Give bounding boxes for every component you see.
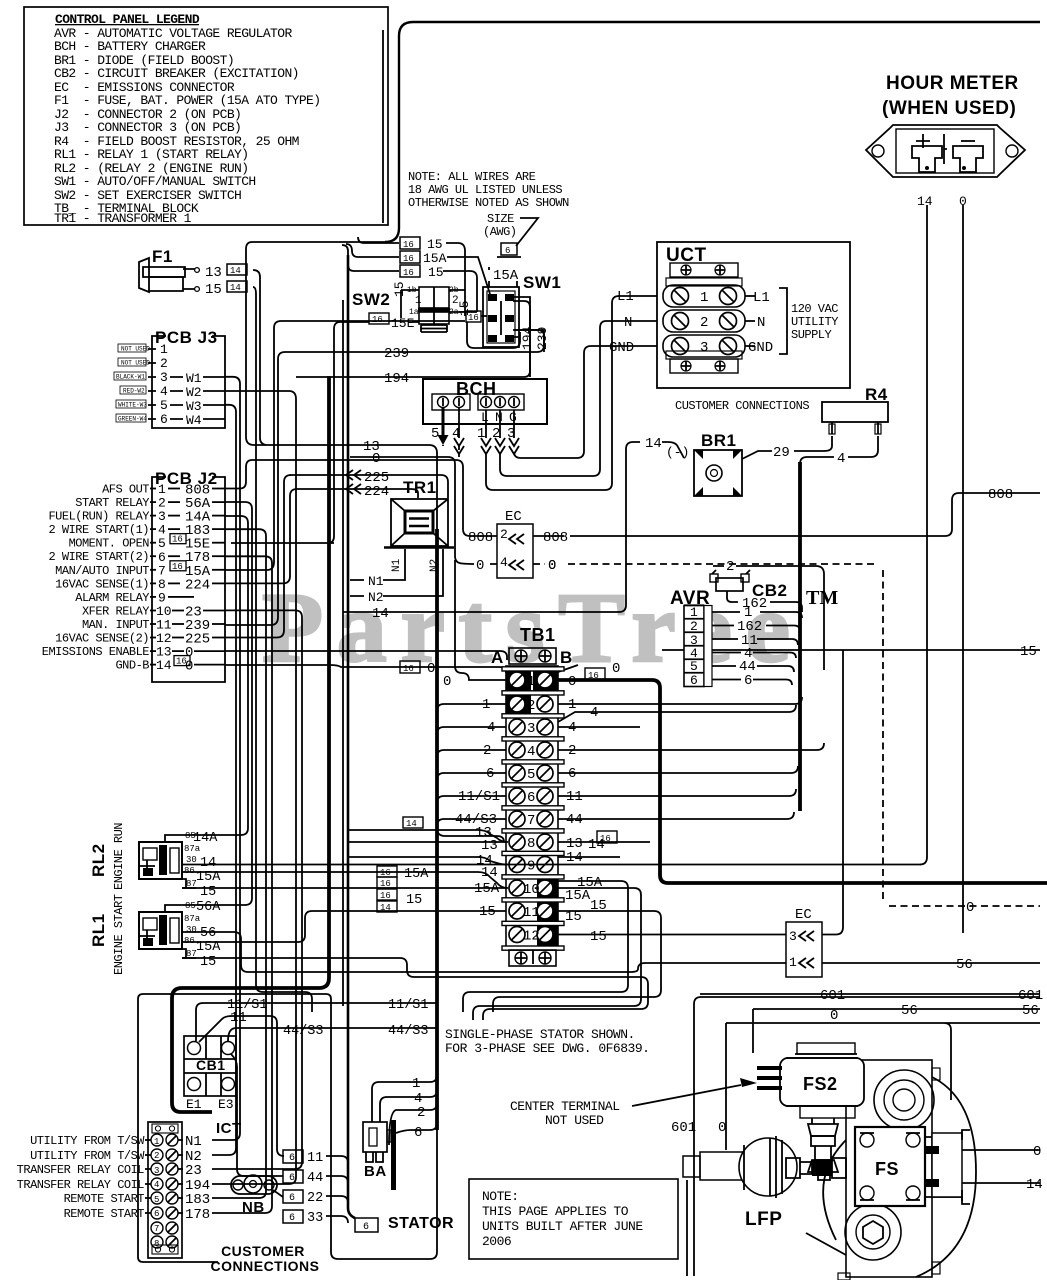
svg-text:14: 14: [566, 850, 583, 866]
wire 14 row9b: [348, 857, 508, 865]
wire 13 row8b: [348, 841, 506, 843]
svg-text:0: 0: [959, 194, 967, 209]
wire 0 fs right: [962, 1149, 1040, 1151]
svg-text:RL1 - RELAY 1 (START RELAY): RL1 - RELAY 1 (START RELAY): [54, 147, 248, 162]
svg-text:30: 30: [186, 855, 197, 865]
wire 13 row8a: [348, 830, 508, 842]
svg-text:15A: 15A: [423, 251, 447, 266]
svg-text:13: 13: [481, 838, 498, 854]
wire stator rail: [172, 376, 329, 1112]
wire 44S3: [228, 1028, 437, 1041]
svg-text:BR1: BR1: [701, 431, 737, 450]
svg-text:1: 1: [160, 342, 168, 357]
wire 14 fs right: [962, 1182, 1040, 1184]
wire R4 4: [800, 436, 878, 464]
svg-text:5: 5: [527, 767, 535, 783]
svg-text:FS: FS: [875, 1159, 899, 1179]
svg-text:0: 0: [1033, 1144, 1041, 1160]
svg-text:56: 56: [1022, 1003, 1039, 1019]
svg-text:15A: 15A: [404, 867, 429, 882]
svg-text:15E: 15E: [391, 316, 415, 331]
stator lead size boxes: [283, 1150, 323, 1226]
svg-text:N1: N1: [391, 558, 403, 572]
svg-text:8: 8: [527, 836, 535, 852]
svg-text:9: 9: [527, 859, 535, 875]
svg-text:178: 178: [185, 1207, 210, 1223]
battery charger BCH: [423, 379, 547, 454]
wire 224: [296, 489, 418, 498]
wire 0 rail455: [455, 560, 506, 680]
wire GND: [514, 346, 657, 458]
svg-text:2: 2: [154, 1151, 159, 1161]
svg-text:UTILITY: UTILITY: [791, 315, 838, 329]
svg-text:44/S3: 44/S3: [388, 1024, 429, 1039]
watermark PartsTree: [262, 572, 838, 683]
svg-text:29: 29: [773, 445, 790, 461]
wire 194 sw1: [296, 301, 530, 377]
svg-text:SUPPLY: SUPPLY: [791, 328, 832, 342]
wire 239: [225, 330, 544, 625]
svg-text:NOTE:: NOTE:: [482, 1189, 519, 1204]
emissions connector EC lower: [786, 907, 822, 977]
svg-text:6: 6: [289, 1153, 295, 1164]
note box: [469, 1179, 678, 1259]
svg-text:2: 2: [452, 295, 459, 307]
relay RL1: [89, 894, 201, 975]
bch L N G wires with arrows: [486, 410, 514, 438]
svg-text:BCH: BCH: [456, 379, 497, 399]
svg-text:ALARM RELAY: ALARM RELAY: [75, 591, 149, 605]
svg-text:REMOTE START: REMOTE START: [64, 1207, 145, 1221]
FS right connector: [925, 1133, 962, 1201]
svg-text:4: 4: [568, 720, 576, 736]
wire 56A: [181, 502, 252, 905]
wire 33 lead: [326, 1216, 348, 1223]
svg-text:4: 4: [500, 555, 508, 570]
small fitting between LFP and FS: [786, 1158, 812, 1178]
wire F1-13 down: [253, 270, 266, 445]
svg-text:GND-B: GND-B: [115, 659, 149, 673]
wire tb1 B5 6: [558, 766, 798, 773]
svg-text:6: 6: [289, 1173, 295, 1184]
svg-text:0: 0: [568, 674, 576, 690]
svg-text:11: 11: [307, 1151, 323, 1166]
svg-text:6: 6: [527, 790, 535, 806]
svg-text:CB2 - CIRCUIT BREAKER (EXCITAT: CB2 - CIRCUIT BREAKER (EXCITATION): [54, 66, 299, 81]
svg-text:33: 33: [307, 1211, 323, 1226]
svg-text:23: 23: [185, 1163, 202, 1179]
svg-text:3: 3: [700, 340, 708, 356]
wire 808 J2: [225, 460, 497, 536]
labels 0 thick: [568, 661, 620, 690]
switch SW2: [352, 281, 477, 332]
wire 29: [742, 436, 832, 459]
svg-text:6: 6: [154, 1209, 159, 1219]
svg-text:16: 16: [403, 254, 414, 264]
svg-text:WHITE-W3: WHITE-W3: [118, 402, 147, 409]
transfer connection terminal ICT: [17, 1120, 242, 1258]
wire 15A top: [346, 244, 490, 294]
svg-text:16: 16: [380, 891, 391, 901]
svg-text:AFS OUT: AFS OUT: [102, 483, 149, 497]
svg-text:L1: L1: [617, 289, 634, 305]
svg-text:6: 6: [160, 412, 168, 427]
wire 15A rl1: [182, 911, 506, 942]
circuit breaker CB2: [710, 559, 824, 670]
svg-text:1: 1: [415, 295, 422, 307]
wire 183: [212, 529, 266, 1198]
fuel solenoid FS: [855, 1127, 970, 1206]
svg-text:LFP: LFP: [745, 1209, 782, 1230]
svg-text:GREEN-W4: GREEN-W4: [118, 416, 147, 423]
circuit breaker CB1: [184, 1036, 236, 1112]
svg-text:G: G: [509, 410, 517, 425]
stator lead: [355, 1215, 454, 1233]
svg-text:MAN/AUTO INPUT: MAN/AUTO INPUT: [55, 564, 149, 578]
svg-text:224: 224: [185, 577, 210, 593]
svg-text:86: 86: [184, 936, 195, 946]
svg-text:E1: E1: [186, 1097, 202, 1112]
svg-text:14: 14: [481, 865, 498, 881]
svg-text:7: 7: [527, 813, 535, 829]
svg-text:16: 16: [380, 879, 391, 889]
wire hour meter 14: [920, 205, 927, 865]
svg-text:F1 - FUSE, BAT. POWER (15A AT: F1 - FUSE, BAT. POWER (15A ATO TYPE): [54, 93, 320, 108]
svg-text:14: 14: [645, 436, 662, 452]
svg-text:0: 0: [443, 674, 451, 690]
svg-text:87a: 87a: [184, 914, 201, 924]
svg-text:16: 16: [403, 664, 414, 674]
svg-text:A: A: [491, 648, 504, 667]
svg-text:183: 183: [185, 1192, 210, 1208]
svg-text:16VAC SENSE(2): 16VAC SENSE(2): [55, 632, 149, 646]
wire BA 6: [396, 1123, 437, 1133]
svg-text:16: 16: [600, 834, 611, 844]
svg-text:15A: 15A: [196, 940, 221, 955]
wire 15A rl2: [182, 872, 508, 888]
svg-text:NB: NB: [242, 1199, 265, 1216]
svg-text:0: 0: [427, 661, 435, 677]
svg-text:FS2: FS2: [803, 1074, 838, 1094]
wire W3 N2: [212, 405, 236, 1155]
svg-text:18 AWG UL LISTED UNLESS: 18 AWG UL LISTED UNLESS: [408, 183, 562, 197]
size box stack: [377, 866, 429, 913]
svg-text:2006: 2006: [482, 1234, 511, 1249]
svg-text:THIS PAGE APPLIES TO: THIS PAGE APPLIES TO: [482, 1204, 629, 1219]
wire 44 cb1: [231, 1054, 283, 1176]
resistor R4: [822, 385, 888, 434]
svg-text:8: 8: [154, 1239, 159, 1249]
svg-text:0: 0: [612, 661, 620, 677]
wire BA 4: [380, 1090, 437, 1122]
svg-text:N: N: [757, 315, 765, 331]
svg-text:15: 15: [565, 909, 582, 925]
svg-text:1: 1: [690, 605, 698, 620]
wire 14A: [181, 516, 248, 835]
BA labels: [412, 1076, 425, 1141]
battery adapter BA: [363, 1122, 391, 1180]
svg-text:6: 6: [486, 766, 494, 782]
svg-text:RED-W2: RED-W2: [123, 388, 145, 395]
svg-text:2: 2: [568, 743, 576, 759]
wire avr p3: [712, 639, 798, 645]
size awg callout: [483, 212, 538, 257]
svg-text:1a: 1a: [409, 308, 419, 317]
svg-text:11/S1: 11/S1: [458, 789, 500, 805]
svg-text:14: 14: [200, 856, 216, 871]
svg-text:3: 3: [789, 929, 797, 944]
svg-text:GND: GND: [609, 340, 634, 356]
wire 13 bch: [442, 445, 444, 446]
svg-text:SINGLE-PHASE STATOR SHOWN.: SINGLE-PHASE STATOR SHOWN.: [445, 1027, 635, 1042]
svg-text:15: 15: [406, 893, 422, 908]
svg-text:REMOTE START: REMOTE START: [64, 1192, 145, 1206]
wire 0 left: [350, 457, 497, 564]
svg-text:6: 6: [363, 1222, 369, 1233]
wire 15E: [231, 322, 419, 543]
svg-text:15A: 15A: [474, 881, 500, 897]
svg-text:TRANSFER RELAY COIL: TRANSFER RELAY COIL: [17, 1163, 145, 1177]
svg-text:1: 1: [482, 697, 490, 713]
wire 0 row1upper: [225, 665, 506, 673]
diode BR1: [645, 431, 742, 496]
svg-text:(-): (-): [666, 445, 689, 460]
svg-text:6: 6: [289, 1213, 295, 1224]
svg-text:(AWG): (AWG): [483, 225, 517, 239]
svg-text:15: 15: [200, 955, 216, 970]
wire rail 437 lower: [331, 1130, 437, 1259]
svg-text:56: 56: [901, 1003, 918, 1019]
legend box: [24, 7, 388, 226]
labels 11S1: [227, 998, 429, 1013]
tb1 right labels: [565, 697, 607, 925]
wire 56 fs2: [753, 1009, 1040, 1053]
svg-text:601: 601: [820, 988, 845, 1004]
wire tb1 B9 14: [558, 856, 620, 858]
svg-text:1: 1: [154, 1137, 159, 1147]
PCB J3: [114, 328, 225, 428]
wire tb1 B4 2: [558, 743, 824, 750]
svg-text:120 VAC: 120 VAC: [791, 302, 838, 316]
svg-text:UNITS BUILT AFTER JUNE: UNITS BUILT AFTER JUNE: [482, 1219, 643, 1234]
wire W1 N1: [212, 377, 240, 1140]
svg-text:CUSTOMER: CUSTOMER: [221, 1243, 305, 1259]
box16 0: [400, 661, 451, 690]
svg-text:16: 16: [403, 240, 414, 250]
svg-text:15: 15: [200, 885, 216, 900]
svg-text:2: 2: [417, 1105, 425, 1121]
svg-text:4: 4: [154, 1180, 159, 1190]
wire tb1 A6 feed: [437, 796, 506, 803]
arrows 225: [346, 470, 361, 494]
svg-text:W1: W1: [186, 371, 202, 386]
wire 23 rail: [212, 610, 302, 1169]
wire L1: [486, 296, 657, 490]
svg-text:0: 0: [718, 1120, 726, 1136]
wire 56 right: [822, 962, 1040, 964]
wire 0 thick: [558, 680, 1047, 883]
wire hour meter 0: [962, 205, 964, 933]
svg-text:OTHERWISE NOTED AS SHOWN: OTHERWISE NOTED AS SHOWN: [408, 196, 569, 210]
wire 15 B12: [558, 934, 786, 936]
enclosure inner segment: [382, 30, 384, 223]
svg-text:N2: N2: [429, 559, 441, 572]
svg-text:12: 12: [523, 929, 540, 945]
svg-text:1: 1: [412, 1076, 420, 1092]
size boxes top: [400, 237, 447, 280]
svg-text:22: 22: [307, 1191, 323, 1206]
wire 11 cb1: [199, 1016, 284, 1156]
transformer TR1: [350, 478, 454, 605]
svg-text:B: B: [560, 648, 573, 667]
LFP: [683, 1136, 846, 1230]
svg-text:W3: W3: [186, 399, 202, 414]
texts: [0, 0, 1, 1]
svg-text:BCH - BATTERY CHARGER: BCH - BATTERY CHARGER: [54, 39, 206, 54]
svg-text:15: 15: [590, 929, 607, 945]
svg-text:NOT USED: NOT USED: [121, 346, 150, 353]
svg-text:RL2: RL2: [89, 843, 108, 877]
wire 15 top: [358, 237, 465, 316]
svg-text:14: 14: [156, 658, 172, 673]
svg-text:SW1: SW1: [523, 273, 561, 292]
svg-text:1: 1: [700, 290, 708, 306]
svg-text:16: 16: [172, 535, 183, 545]
svg-text:0: 0: [372, 451, 380, 467]
wire 601: [700, 993, 1040, 995]
labels 601: [671, 988, 1043, 1136]
box14: [403, 817, 423, 829]
svg-text:SIZE: SIZE: [487, 212, 514, 226]
wire tb1 B11 15: [493, 911, 661, 1012]
svg-text:15A: 15A: [565, 888, 591, 904]
svg-text:CONTROL PANEL LEGEND: CONTROL PANEL LEGEND: [55, 12, 200, 27]
svg-text:6: 6: [744, 673, 752, 689]
wire 15 right: [662, 649, 1040, 651]
wire tb1 B6 11: [558, 789, 796, 796]
wire rail 343: [342, 300, 344, 1006]
svg-text:16: 16: [588, 671, 599, 681]
svg-text:11/S1: 11/S1: [388, 998, 429, 1013]
svg-text:0: 0: [548, 558, 556, 574]
svg-text:NOT USED: NOT USED: [121, 360, 150, 367]
svg-text:239: 239: [384, 346, 409, 362]
fuel solenoid assembly body: [806, 1060, 976, 1280]
svg-text:TR1: TR1: [403, 478, 437, 497]
tb1 left labels: [455, 697, 500, 920]
svg-text:6: 6: [568, 766, 576, 782]
wire 15A man-auto: [225, 321, 465, 570]
svg-text:601: 601: [671, 1120, 696, 1136]
svg-text:11: 11: [230, 1010, 247, 1026]
svg-text:15A: 15A: [196, 870, 221, 885]
svg-text:6: 6: [414, 1125, 422, 1141]
svg-text:4: 4: [160, 384, 168, 399]
fuel solenoid FS2: [757, 1043, 864, 1180]
svg-text:15: 15: [427, 237, 443, 252]
svg-text:14: 14: [1026, 1177, 1043, 1193]
wire 194: [212, 391, 296, 1184]
wire BA 2: [389, 1103, 437, 1145]
wire tb1 B2 1: [558, 697, 802, 704]
svg-text:56: 56: [200, 926, 216, 941]
wire 15 rl2: [182, 887, 506, 889]
wire 44 lead: [326, 1176, 348, 1183]
svg-text:85: 85: [185, 901, 196, 911]
box 15E: [369, 313, 415, 331]
svg-text:2: 2: [527, 698, 535, 714]
svg-text:UTILITY FROM T/SW: UTILITY FROM T/SW: [30, 1134, 145, 1148]
svg-text:6: 6: [690, 673, 698, 688]
wire stator rail2: [348, 255, 355, 1218]
wire tb1 B10 15A: [463, 881, 628, 1012]
svg-text:2 WIRE START(2): 2 WIRE START(2): [48, 550, 149, 564]
svg-text:TRANSFER RELAY COIL: TRANSFER RELAY COIL: [17, 1178, 145, 1192]
svg-text:SW1 - AUTO/OFF/MANUAL SWITCH: SW1 - AUTO/OFF/MANUAL SWITCH: [54, 174, 256, 189]
svg-text:CUSTOMER CONNECTIONS: CUSTOMER CONNECTIONS: [675, 399, 809, 413]
svg-text:TB1: TB1: [520, 625, 556, 645]
wire tb1 A5 feed: [437, 773, 506, 780]
svg-text:2: 2: [726, 559, 734, 575]
svg-text:TR1 - TRANSFORMER 1: TR1 - TRANSFORMER 1: [54, 211, 192, 226]
svg-text:6: 6: [505, 246, 510, 256]
svg-text:6: 6: [289, 1193, 295, 1204]
svg-text:0: 0: [966, 900, 974, 916]
wire avr bundle: [798, 462, 802, 811]
customer connections box: [138, 994, 331, 1274]
terminal block TB1: [491, 625, 573, 966]
svg-text:J3 - CONNECTOR 3 (ON PCB): J3 - CONNECTOR 3 (ON PCB): [54, 120, 241, 135]
labels 0 fs2: [718, 1008, 838, 1136]
svg-text:ENGINE RUN: ENGINE RUN: [112, 823, 126, 890]
svg-text:808: 808: [988, 487, 1013, 503]
svg-text:44: 44: [307, 1171, 323, 1186]
wire avr p4: [712, 653, 796, 659]
wire F1-15 down: [253, 287, 312, 1012]
svg-text:16: 16: [372, 315, 383, 325]
svg-text:5: 5: [154, 1195, 159, 1205]
wire tb1 B3 4 diag: [558, 705, 796, 722]
svg-text:14: 14: [380, 903, 391, 913]
svg-text:5: 5: [690, 659, 698, 674]
svg-text:1: 1: [527, 674, 535, 690]
svg-text:L: L: [481, 410, 489, 425]
svg-text:5: 5: [431, 426, 439, 442]
svg-text:EC: EC: [505, 509, 522, 525]
svg-text:CENTER TERMINAL: CENTER TERMINAL: [510, 1099, 620, 1114]
labels 56 fs2: [901, 1003, 1039, 1019]
relay RL2: [89, 823, 201, 890]
wire tb1 A2 feed: [437, 704, 506, 711]
svg-text:4: 4: [590, 705, 598, 721]
svg-text:16: 16: [172, 562, 183, 572]
svg-text:F1: F1: [152, 247, 173, 266]
svg-text:5: 5: [160, 398, 168, 413]
svg-text:56A: 56A: [196, 900, 221, 915]
svg-text:13: 13: [205, 265, 222, 281]
wire 11 lead: [326, 1156, 348, 1163]
svg-text:CB1: CB1: [196, 1057, 226, 1073]
svg-text:3: 3: [527, 721, 535, 737]
svg-text:0: 0: [476, 558, 484, 574]
svg-text:N1: N1: [368, 574, 384, 589]
svg-text:86: 86: [184, 866, 195, 876]
wire tb1 A3 feed: [437, 727, 506, 734]
svg-text:ENGINE START: ENGINE START: [112, 894, 126, 975]
svg-text:STATOR: STATOR: [388, 1215, 454, 1232]
svg-text:N: N: [495, 410, 503, 425]
svg-text:0: 0: [185, 659, 193, 675]
